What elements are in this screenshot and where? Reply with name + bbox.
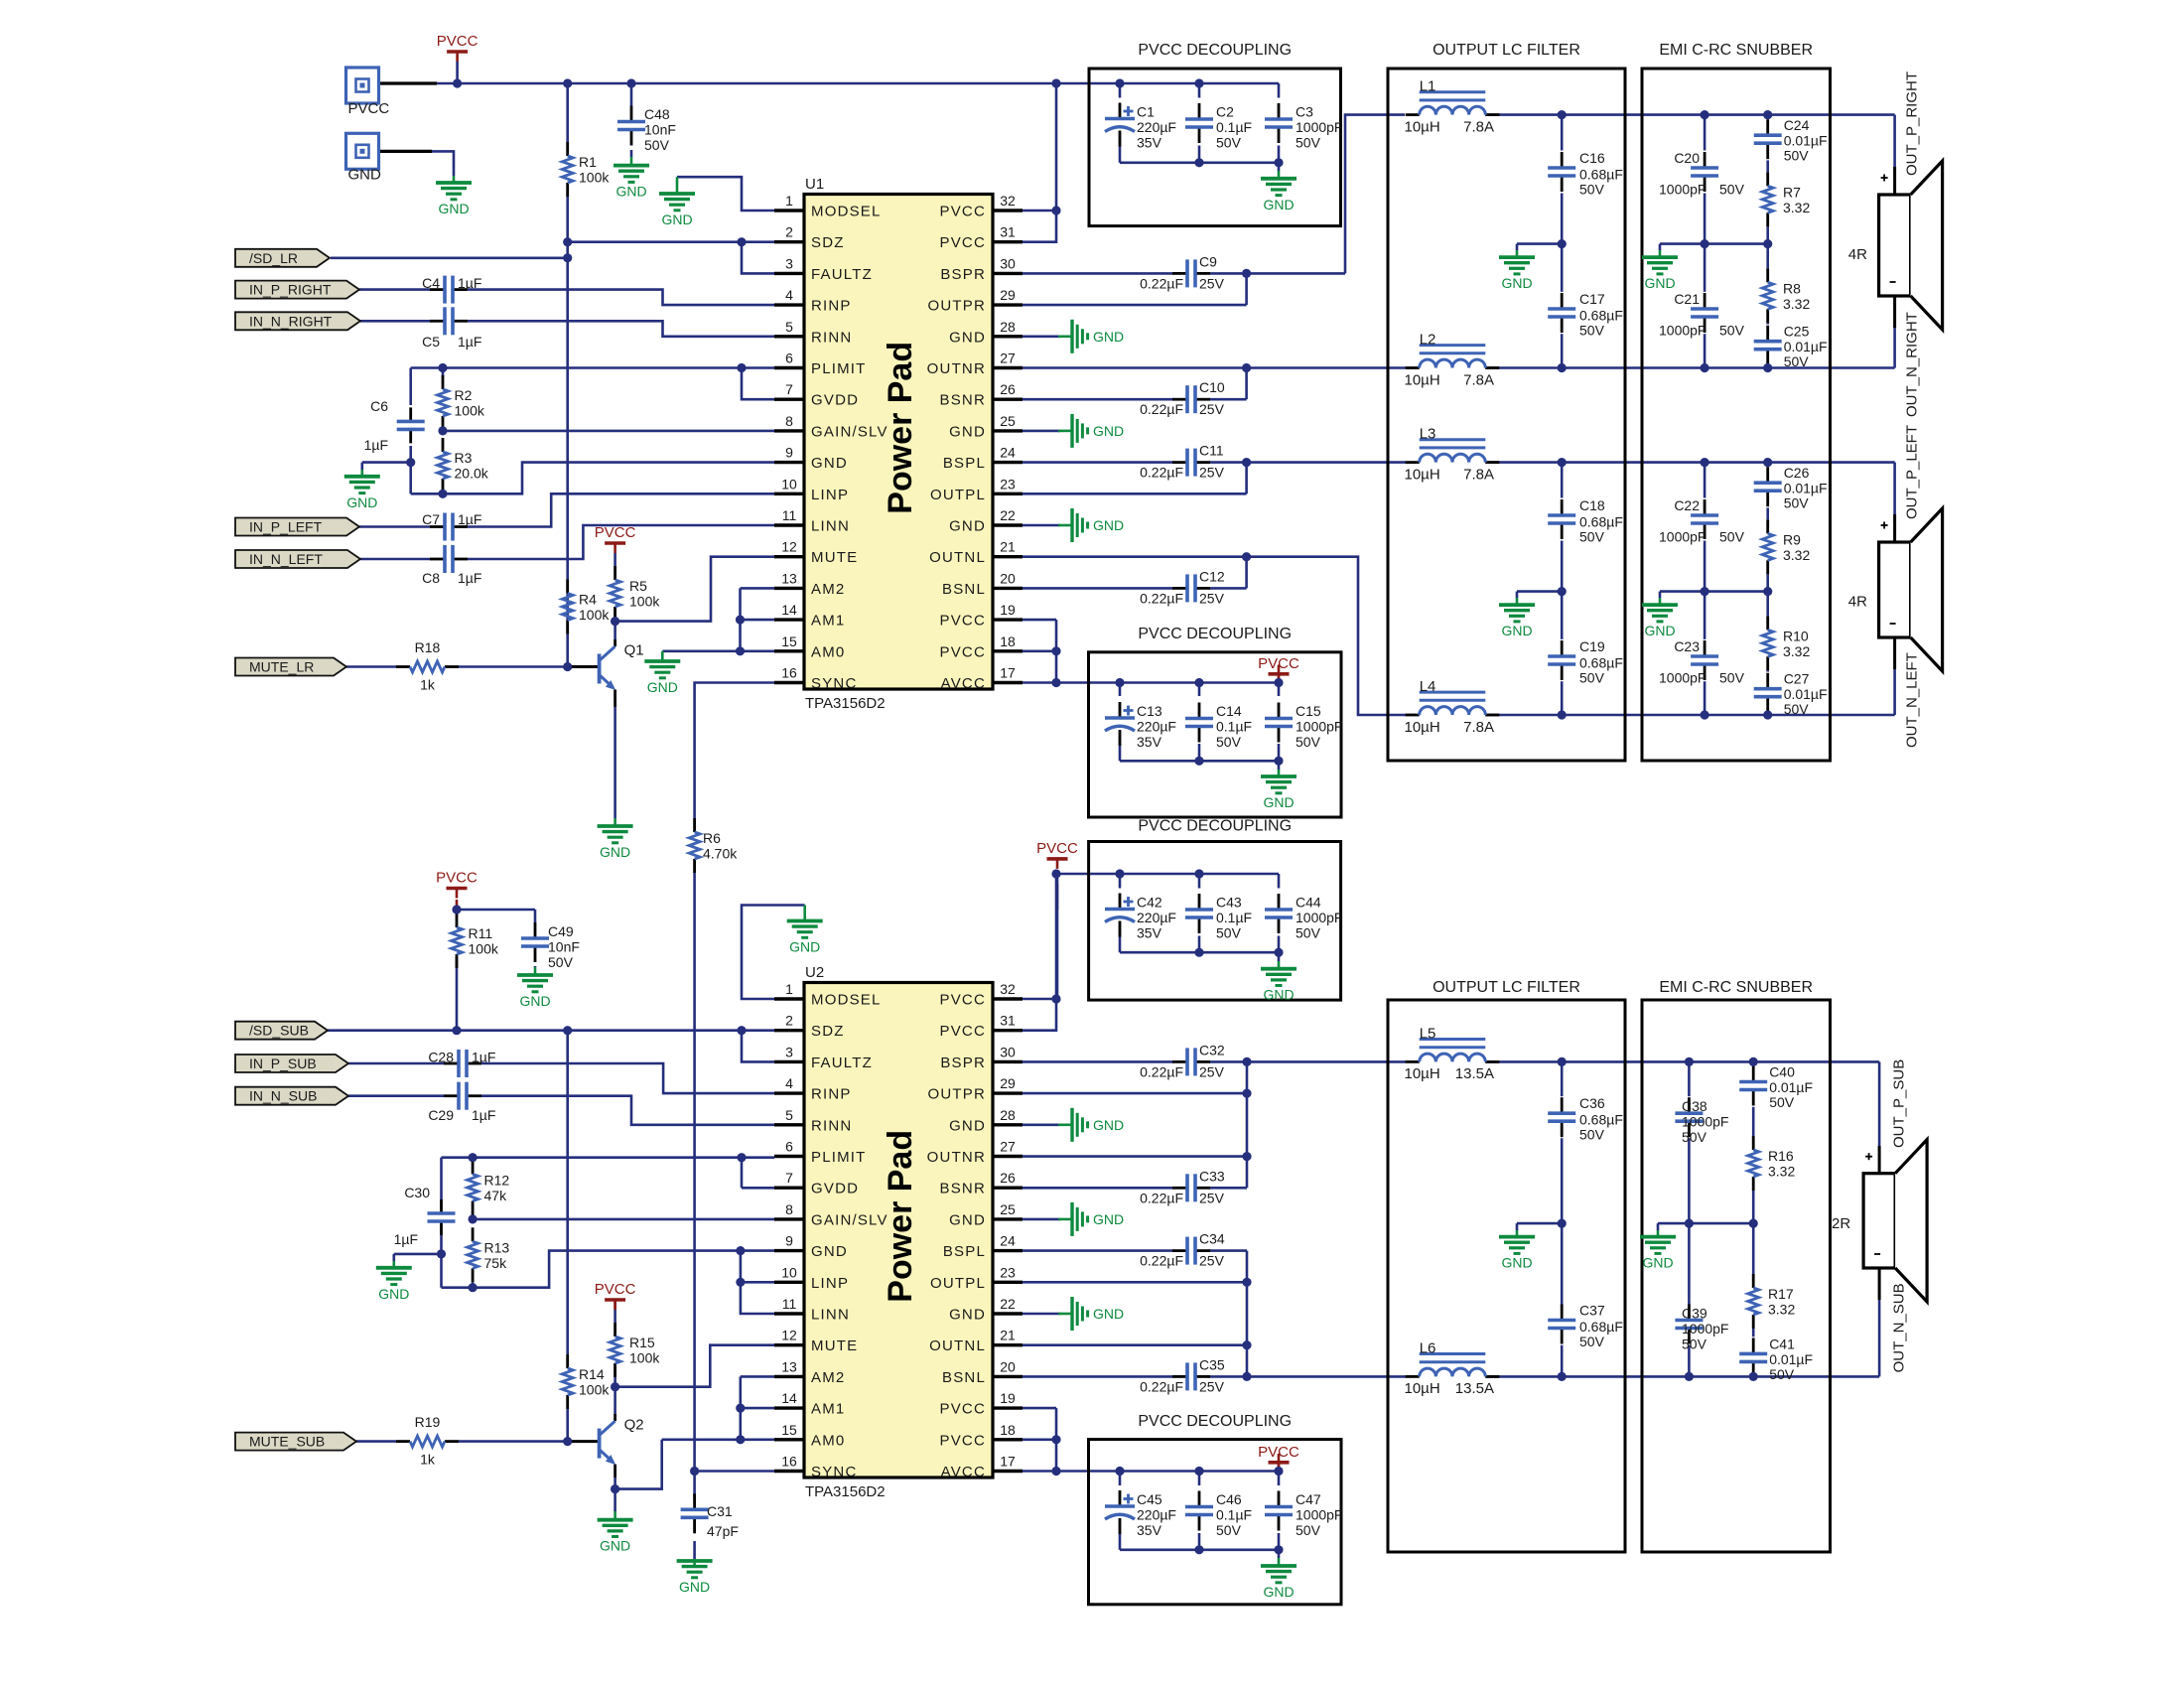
svg-text:GND: GND (679, 1579, 710, 1595)
svg-text:RINN: RINN (811, 329, 852, 346)
svg-text:20.0k: 20.0k (455, 466, 489, 482)
svg-text:C39: C39 (1682, 1306, 1707, 1322)
svg-text:0.68µF: 0.68µF (1579, 308, 1623, 324)
svg-text:100k: 100k (469, 941, 499, 957)
svg-text:TPA3156D2: TPA3156D2 (805, 1483, 886, 1500)
svg-text:3.32: 3.32 (1783, 200, 1810, 215)
svg-text:1k: 1k (420, 1452, 436, 1468)
svg-text:19: 19 (1000, 602, 1016, 618)
svg-text:MUTE: MUTE (811, 1337, 858, 1354)
svg-text:GND: GND (1093, 1117, 1124, 1133)
svg-text:3.32: 3.32 (1783, 643, 1810, 659)
svg-text:0.01µF: 0.01µF (1769, 1079, 1813, 1095)
svg-text:10µH: 10µH (1405, 1380, 1440, 1397)
svg-text:AM0: AM0 (811, 1432, 845, 1449)
svg-text:25V: 25V (1199, 465, 1225, 481)
svg-text:OUTPR: OUTPR (928, 1086, 987, 1103)
svg-text:C4: C4 (422, 275, 440, 291)
svg-text:C26: C26 (1784, 465, 1810, 481)
svg-text:C31: C31 (707, 1503, 733, 1519)
svg-text:1µF: 1µF (472, 1050, 495, 1065)
svg-text:SYNC: SYNC (811, 675, 857, 692)
svg-text:L6: L6 (1420, 1339, 1436, 1356)
svg-text:0.1µF: 0.1µF (1216, 910, 1252, 925)
svg-text:GND: GND (811, 455, 848, 472)
svg-text:29: 29 (1000, 287, 1016, 303)
svg-text:2: 2 (785, 224, 793, 240)
svg-text:1000pF: 1000pF (1659, 323, 1706, 339)
svg-text:R16: R16 (1768, 1148, 1794, 1164)
svg-text:PVCC DECOUPLING: PVCC DECOUPLING (1138, 42, 1292, 59)
svg-text:2: 2 (785, 1013, 793, 1029)
svg-text:R11: R11 (469, 925, 493, 941)
svg-text:R17: R17 (1768, 1286, 1794, 1302)
svg-text:OUTPL: OUTPL (930, 1275, 986, 1292)
svg-text:1k: 1k (420, 677, 436, 693)
svg-text:11: 11 (782, 507, 797, 523)
svg-text:9: 9 (785, 1233, 793, 1249)
svg-text:C17: C17 (1579, 291, 1605, 307)
svg-text:C43: C43 (1216, 895, 1242, 911)
svg-text:GVDD: GVDD (811, 392, 859, 409)
svg-text:R7: R7 (1783, 184, 1801, 200)
svg-text:C9: C9 (1199, 253, 1217, 269)
svg-text:R19: R19 (415, 1414, 441, 1430)
svg-text:32: 32 (1000, 981, 1016, 997)
svg-text:C3: C3 (1296, 104, 1313, 120)
svg-text:3: 3 (785, 1044, 793, 1059)
svg-text:0.22µF: 0.22µF (1140, 1378, 1183, 1394)
svg-text:AM0: AM0 (811, 643, 845, 660)
svg-text:50V: 50V (1296, 135, 1321, 151)
svg-text:Power Pad: Power Pad (882, 342, 919, 514)
svg-text:3.32: 3.32 (1783, 547, 1810, 563)
svg-text:75k: 75k (484, 1255, 508, 1271)
svg-text:MUTE: MUTE (811, 549, 858, 566)
svg-text:C40: C40 (1769, 1064, 1795, 1080)
svg-text:Q1: Q1 (624, 642, 644, 659)
svg-text:3.32: 3.32 (1768, 1164, 1795, 1180)
svg-text:35V: 35V (1137, 734, 1162, 750)
svg-text:0.01µF: 0.01µF (1784, 481, 1828, 496)
svg-text:8: 8 (785, 1201, 793, 1217)
svg-text:6: 6 (785, 1139, 793, 1155)
svg-text:GND: GND (519, 993, 550, 1009)
svg-text:AVCC: AVCC (941, 675, 986, 692)
svg-text:BSPR: BSPR (940, 266, 986, 283)
svg-text:PLIMIT: PLIMIT (811, 1149, 867, 1166)
svg-text:50V: 50V (1579, 1127, 1605, 1143)
svg-text:25V: 25V (1199, 590, 1225, 606)
svg-text:100k: 100k (579, 607, 610, 623)
svg-text:5: 5 (785, 1107, 793, 1123)
svg-text:7.8A: 7.8A (1463, 719, 1494, 736)
svg-text:R4: R4 (579, 592, 597, 608)
svg-text:50V: 50V (1216, 925, 1242, 941)
svg-text:16: 16 (781, 665, 797, 681)
svg-text:100k: 100k (629, 1350, 660, 1366)
svg-text:GAIN/SLV: GAIN/SLV (811, 1211, 888, 1228)
svg-text:IN_P_RIGHT: IN_P_RIGHT (249, 282, 332, 298)
svg-text:100k: 100k (579, 1382, 610, 1398)
svg-text:OUT_N_SUB: OUT_N_SUB (1891, 1283, 1908, 1372)
svg-text:TPA3156D2: TPA3156D2 (805, 695, 886, 712)
svg-text:47k: 47k (484, 1188, 508, 1203)
svg-text:L3: L3 (1420, 426, 1436, 443)
svg-text:0.22µF: 0.22µF (1140, 275, 1183, 291)
svg-text:0.1µF: 0.1µF (1216, 719, 1252, 735)
svg-text:BSNL: BSNL (942, 581, 986, 598)
svg-text:C13: C13 (1137, 703, 1162, 719)
svg-text:1000pF: 1000pF (1296, 1507, 1342, 1523)
svg-text:PVCC: PVCC (1036, 840, 1078, 857)
svg-text:50V: 50V (1579, 323, 1605, 339)
svg-text:26: 26 (1000, 381, 1016, 397)
svg-text:4: 4 (785, 1075, 793, 1091)
svg-text:GND: GND (661, 211, 692, 227)
svg-text:R13: R13 (484, 1239, 510, 1255)
svg-text:50V: 50V (1784, 701, 1810, 717)
svg-text:30: 30 (1000, 255, 1016, 271)
svg-text:0.1µF: 0.1µF (1216, 1507, 1252, 1523)
svg-text:3: 3 (785, 255, 793, 271)
svg-text:GND: GND (647, 679, 678, 695)
svg-text:C33: C33 (1199, 1168, 1225, 1184)
svg-text:C36: C36 (1579, 1095, 1605, 1111)
svg-text:GND: GND (1642, 1255, 1673, 1271)
svg-text:25V: 25V (1199, 1253, 1225, 1269)
svg-text:0.01µF: 0.01µF (1784, 686, 1828, 702)
svg-text:20: 20 (1000, 1358, 1016, 1374)
svg-text:31: 31 (1000, 1013, 1016, 1029)
svg-text:PVCC: PVCC (940, 613, 986, 630)
svg-text:C1: C1 (1137, 104, 1155, 120)
svg-text:GND: GND (1263, 794, 1294, 810)
svg-text:32: 32 (1000, 193, 1016, 209)
svg-text:4.70k: 4.70k (703, 846, 738, 862)
svg-text:0.22µF: 0.22µF (1140, 590, 1183, 606)
svg-text:GAIN/SLV: GAIN/SLV (811, 423, 888, 440)
svg-text:23: 23 (1000, 476, 1016, 492)
svg-text:50V: 50V (1216, 1522, 1242, 1538)
svg-text:50V: 50V (1296, 1522, 1321, 1538)
svg-text:PVCC: PVCC (940, 234, 986, 251)
svg-text:C21: C21 (1674, 291, 1700, 307)
svg-text:50V: 50V (1296, 925, 1321, 941)
svg-text:C8: C8 (422, 570, 440, 586)
svg-text:10nF: 10nF (548, 939, 580, 955)
svg-text:10µH: 10µH (1405, 118, 1440, 135)
svg-text:BSNL: BSNL (942, 1369, 986, 1386)
svg-text:7: 7 (785, 1170, 793, 1186)
svg-text:C25: C25 (1784, 324, 1810, 340)
svg-text:10µH: 10µH (1405, 371, 1440, 388)
svg-text:13: 13 (781, 1358, 797, 1374)
svg-text:12: 12 (781, 539, 797, 555)
svg-text:C27: C27 (1784, 671, 1810, 687)
svg-text:C35: C35 (1199, 1356, 1225, 1372)
svg-text:1µF: 1µF (458, 275, 481, 291)
svg-text:25V: 25V (1199, 1063, 1225, 1079)
svg-text:100k: 100k (629, 594, 660, 610)
svg-text:50V: 50V (1579, 1334, 1605, 1349)
svg-text:GND: GND (438, 201, 469, 216)
svg-text:R6: R6 (703, 830, 721, 846)
svg-text:GND: GND (346, 494, 377, 510)
svg-text:C28: C28 (428, 1050, 454, 1065)
svg-text:GND: GND (811, 1243, 848, 1260)
svg-text:22: 22 (1000, 1296, 1016, 1312)
svg-text:220µF: 220µF (1137, 1507, 1176, 1523)
svg-text:1µF: 1µF (458, 511, 481, 527)
svg-text:50V: 50V (1579, 529, 1605, 545)
svg-text:U1: U1 (805, 176, 824, 193)
svg-text:C2: C2 (1216, 104, 1234, 120)
svg-text:OUTPR: OUTPR (928, 298, 987, 315)
svg-text:PVCC: PVCC (940, 1432, 986, 1449)
svg-text:1000pF: 1000pF (1296, 119, 1342, 135)
svg-text:PVCC: PVCC (940, 643, 986, 660)
svg-text:C44: C44 (1296, 895, 1321, 911)
svg-text:10nF: 10nF (644, 122, 676, 138)
svg-text:IN_P_LEFT: IN_P_LEFT (249, 519, 323, 535)
svg-text:R2: R2 (455, 387, 473, 403)
svg-text:IN_P_SUB: IN_P_SUB (249, 1055, 317, 1071)
svg-text:PLIMIT: PLIMIT (811, 360, 867, 377)
svg-text:C22: C22 (1674, 497, 1700, 513)
svg-text:GND: GND (949, 423, 986, 440)
svg-text:C45: C45 (1137, 1491, 1162, 1507)
svg-text:29: 29 (1000, 1075, 1016, 1091)
svg-text:GND: GND (1501, 275, 1532, 291)
svg-text:GND: GND (378, 1286, 409, 1302)
svg-text:GND: GND (1501, 1255, 1532, 1271)
svg-text:Power Pad: Power Pad (882, 1130, 919, 1303)
svg-text:1000pF: 1000pF (1296, 910, 1342, 925)
svg-text:GND: GND (1263, 197, 1294, 212)
svg-text:OUTNL: OUTNL (929, 1337, 986, 1354)
svg-text:0.01µF: 0.01µF (1784, 133, 1828, 149)
svg-text:C7: C7 (422, 511, 440, 527)
svg-text:50V: 50V (1296, 734, 1321, 750)
svg-text:24: 24 (1000, 445, 1016, 461)
svg-text:BSNR: BSNR (940, 392, 986, 409)
svg-text:PVCC: PVCC (595, 524, 636, 541)
svg-text:C18: C18 (1579, 497, 1605, 513)
svg-text:50V: 50V (1719, 670, 1745, 686)
svg-text:11: 11 (782, 1296, 797, 1312)
svg-text:0.22µF: 0.22µF (1140, 465, 1183, 481)
svg-text:0.01µF: 0.01µF (1784, 339, 1828, 354)
svg-text:C34: C34 (1199, 1231, 1225, 1247)
svg-text:OUTPUT LC FILTER: OUTPUT LC FILTER (1433, 42, 1580, 59)
svg-text:C10: C10 (1199, 379, 1225, 395)
svg-text:SDZ: SDZ (811, 1023, 845, 1040)
svg-text:PVCC: PVCC (940, 992, 986, 1009)
svg-text:26: 26 (1000, 1170, 1016, 1186)
svg-text:GND: GND (348, 166, 382, 183)
svg-text:8: 8 (785, 413, 793, 429)
svg-text:0.68µF: 0.68µF (1579, 655, 1623, 671)
svg-text:20: 20 (1000, 570, 1016, 586)
svg-text:C30: C30 (404, 1185, 430, 1200)
svg-text:GND: GND (600, 1538, 630, 1554)
svg-text:GND: GND (1093, 423, 1124, 439)
svg-text:21: 21 (1000, 539, 1016, 555)
svg-text:28: 28 (1000, 319, 1016, 335)
svg-text:100k: 100k (579, 170, 610, 186)
svg-text:LINN: LINN (811, 1307, 850, 1324)
svg-text:19: 19 (1000, 1390, 1016, 1406)
svg-text:27: 27 (1000, 351, 1016, 366)
svg-text:GND: GND (1501, 623, 1532, 638)
svg-text:EMI C-RC SNUBBER: EMI C-RC SNUBBER (1659, 42, 1813, 59)
svg-text:50V: 50V (1784, 495, 1810, 511)
svg-text:50V: 50V (1719, 529, 1745, 545)
svg-text:12: 12 (781, 1328, 797, 1343)
svg-text:PVCC DECOUPLING: PVCC DECOUPLING (1138, 818, 1292, 835)
svg-text:28: 28 (1000, 1107, 1016, 1123)
svg-text:GND: GND (1093, 1306, 1124, 1322)
svg-text:50V: 50V (1216, 734, 1242, 750)
svg-text:R12: R12 (484, 1173, 510, 1189)
svg-text:5: 5 (785, 319, 793, 335)
svg-text:MODSEL: MODSEL (811, 204, 882, 220)
svg-text:C5: C5 (422, 334, 440, 350)
svg-text:1µF: 1µF (364, 437, 388, 453)
svg-text:1000pF: 1000pF (1659, 670, 1706, 686)
svg-text:C38: C38 (1682, 1098, 1707, 1114)
svg-text:GND: GND (1644, 275, 1675, 291)
svg-text:OUT_P_LEFT: OUT_P_LEFT (1904, 425, 1921, 519)
svg-text:C15: C15 (1296, 703, 1321, 719)
svg-text:10: 10 (781, 476, 797, 492)
svg-text:13.5A: 13.5A (1455, 1065, 1494, 1082)
svg-text:LINN: LINN (811, 518, 850, 535)
svg-text:AM2: AM2 (811, 1369, 845, 1386)
svg-text:0.1µF: 0.1µF (1216, 119, 1252, 135)
svg-text:0.22µF: 0.22µF (1140, 1063, 1183, 1079)
svg-text:C20: C20 (1674, 150, 1700, 166)
svg-text:R1: R1 (579, 154, 597, 170)
svg-text:10µH: 10µH (1405, 719, 1440, 736)
svg-text:17: 17 (1000, 665, 1016, 681)
svg-text:R15: R15 (629, 1335, 655, 1350)
svg-text:21: 21 (1000, 1328, 1016, 1343)
svg-text:GVDD: GVDD (811, 1181, 859, 1197)
svg-text:1µF: 1µF (458, 570, 481, 586)
svg-text:PVCC: PVCC (437, 33, 478, 50)
svg-text:10µH: 10µH (1405, 1065, 1440, 1082)
svg-text:C37: C37 (1579, 1303, 1605, 1319)
svg-text:BSPR: BSPR (940, 1055, 986, 1071)
svg-text:220µF: 220µF (1137, 910, 1176, 925)
svg-text:18: 18 (1000, 633, 1016, 649)
svg-text:C16: C16 (1579, 150, 1605, 166)
svg-text:24: 24 (1000, 1233, 1016, 1249)
svg-text:U2: U2 (805, 964, 824, 981)
svg-text:GND: GND (949, 1307, 986, 1324)
svg-text:17: 17 (1000, 1454, 1016, 1470)
svg-text:47pF: 47pF (707, 1523, 739, 1539)
svg-text:0.68µF: 0.68µF (1579, 1112, 1623, 1128)
svg-text:LINP: LINP (811, 1275, 849, 1292)
svg-text:25: 25 (1000, 1201, 1016, 1217)
svg-text:50V: 50V (1682, 1336, 1707, 1352)
svg-text:GND: GND (615, 184, 646, 200)
svg-text:6: 6 (785, 351, 793, 366)
svg-text:14: 14 (781, 602, 797, 618)
svg-text:GND: GND (949, 518, 986, 535)
svg-text:RINN: RINN (811, 1117, 852, 1134)
svg-text:/SD_SUB: /SD_SUB (249, 1023, 309, 1039)
svg-text:35V: 35V (1137, 925, 1162, 941)
svg-text:GND: GND (1093, 517, 1124, 533)
svg-text:GND: GND (1093, 329, 1124, 345)
svg-text:C19: C19 (1579, 638, 1605, 654)
svg-text:4: 4 (785, 287, 793, 303)
svg-text:C46: C46 (1216, 1491, 1242, 1507)
svg-text:1µF: 1µF (472, 1107, 495, 1123)
svg-text:3.32: 3.32 (1783, 296, 1810, 312)
svg-text:4R: 4R (1848, 594, 1867, 611)
svg-text:L5: L5 (1420, 1025, 1436, 1042)
svg-text:1000pF: 1000pF (1682, 1114, 1728, 1130)
svg-text:AM1: AM1 (811, 613, 845, 630)
svg-text:3.32: 3.32 (1768, 1302, 1795, 1318)
svg-text:BSNR: BSNR (940, 1181, 986, 1197)
svg-text:35V: 35V (1137, 135, 1162, 151)
svg-text:SDZ: SDZ (811, 234, 845, 251)
svg-text:R14: R14 (579, 1366, 605, 1382)
svg-text:50V: 50V (548, 954, 574, 970)
svg-text:AVCC: AVCC (941, 1464, 986, 1480)
svg-text:PVCC: PVCC (940, 1023, 986, 1040)
svg-text:10µH: 10µH (1405, 466, 1440, 483)
svg-text:IN_N_RIGHT: IN_N_RIGHT (249, 313, 333, 329)
svg-text:GND: GND (1644, 623, 1675, 638)
svg-text:100k: 100k (455, 403, 485, 419)
svg-text:1000pF: 1000pF (1296, 719, 1342, 735)
svg-text:R5: R5 (629, 578, 647, 594)
svg-text:IN_N_SUB: IN_N_SUB (249, 1088, 317, 1104)
svg-text:13: 13 (781, 570, 797, 586)
svg-text:PVCC: PVCC (940, 1401, 986, 1418)
svg-text:50V: 50V (1719, 323, 1745, 339)
svg-text:1µF: 1µF (394, 1231, 418, 1247)
svg-text:R3: R3 (455, 450, 473, 466)
svg-text:9: 9 (785, 445, 793, 461)
svg-text:25: 25 (1000, 413, 1016, 429)
svg-text:PVCC: PVCC (940, 204, 986, 220)
svg-text:22: 22 (1000, 507, 1016, 523)
svg-text:RINP: RINP (811, 298, 852, 315)
svg-text:FAULTZ: FAULTZ (811, 1055, 873, 1071)
svg-text:OUT_P_RIGHT: OUT_P_RIGHT (1904, 71, 1921, 176)
svg-text:23: 23 (1000, 1264, 1016, 1280)
svg-text:30: 30 (1000, 1044, 1016, 1059)
svg-text:220µF: 220µF (1137, 719, 1176, 735)
svg-text:MUTE_LR: MUTE_LR (249, 659, 314, 675)
svg-text:R10: R10 (1783, 628, 1809, 643)
svg-text:50V: 50V (1719, 182, 1745, 198)
svg-text:PVCC DECOUPLING: PVCC DECOUPLING (1138, 1413, 1292, 1430)
svg-text:1µF: 1µF (458, 334, 481, 350)
svg-text:L1: L1 (1420, 78, 1436, 95)
svg-text:FAULTZ: FAULTZ (811, 266, 873, 283)
svg-text:R18: R18 (415, 639, 441, 655)
svg-text:OUTNR: OUTNR (927, 360, 986, 377)
